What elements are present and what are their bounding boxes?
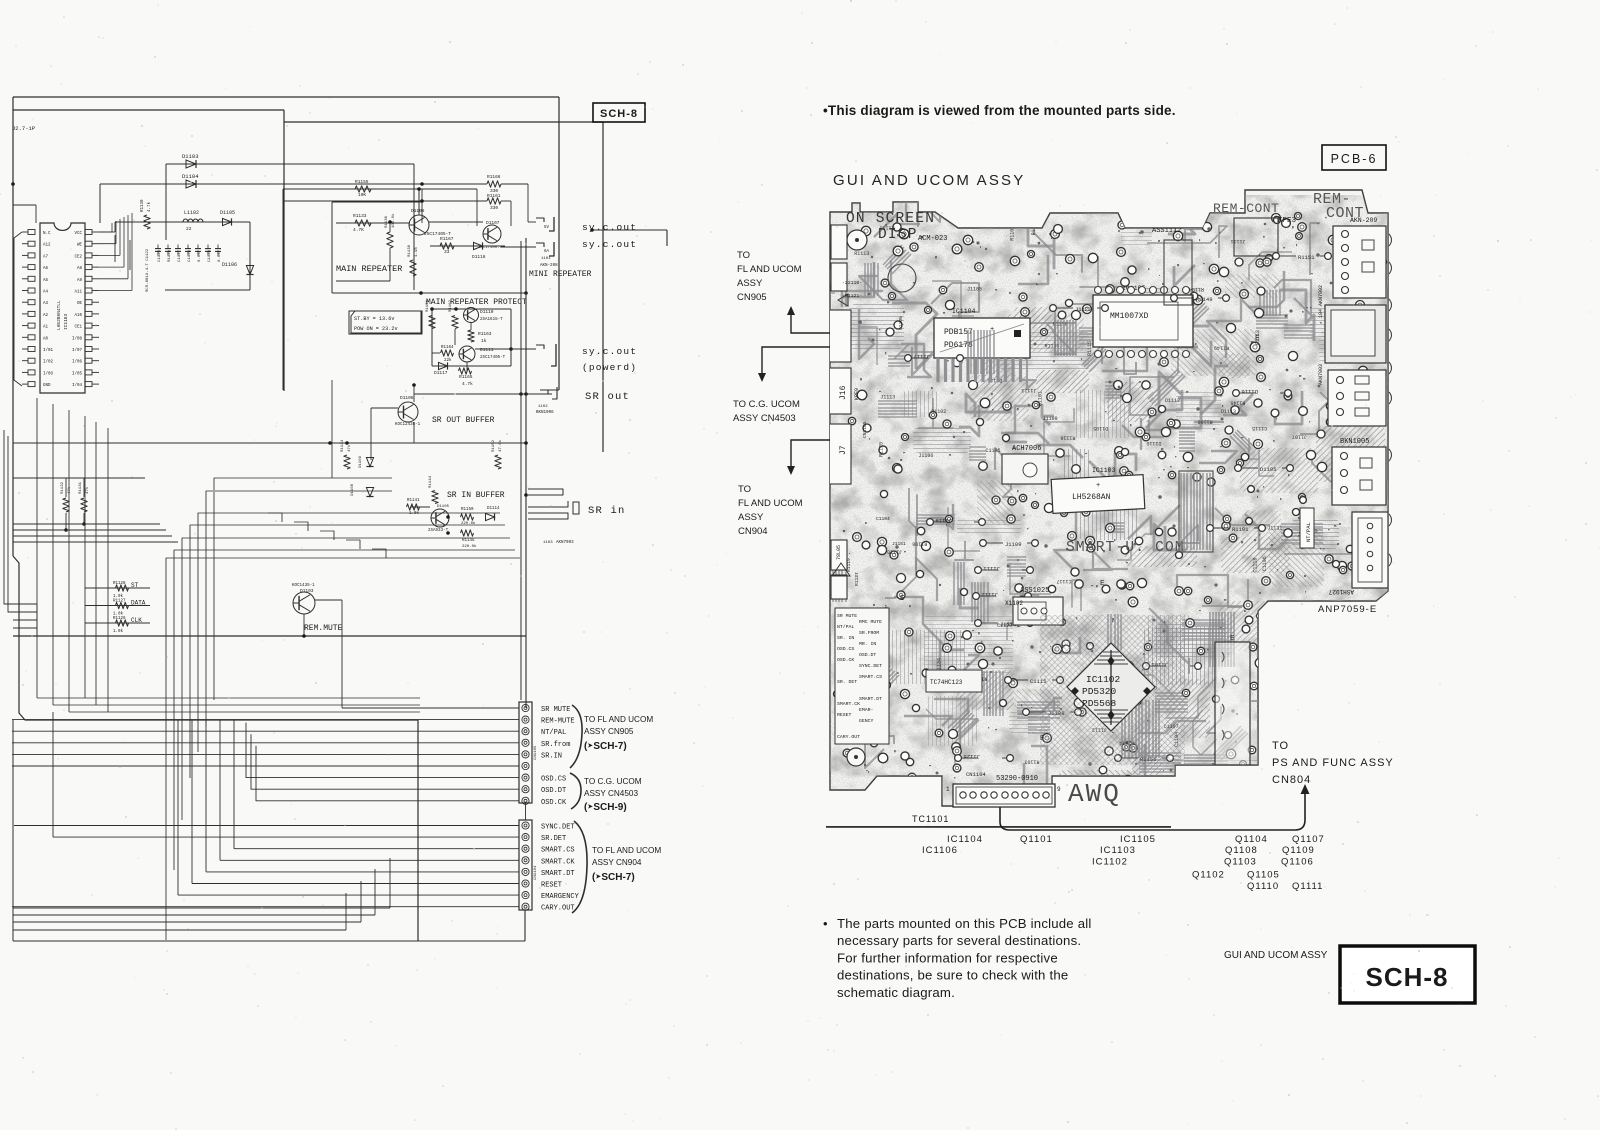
svg-text:Q1109: Q1109: [1282, 845, 1315, 856]
svg-text:KOC1435-1: KOC1435-1: [292, 584, 315, 588]
svg-text:R1133: R1133: [353, 213, 367, 219]
svg-text:OSD.DT: OSD.DT: [541, 787, 566, 795]
svg-text:100.0k: 100.0k: [391, 213, 396, 228]
svg-text:R1126: R1126: [113, 617, 126, 621]
svg-text:R1135: R1135: [1044, 344, 1059, 350]
svg-text:WE: WE: [77, 244, 83, 248]
svg-text:TC74HC123: TC74HC123: [930, 679, 963, 686]
svg-text:REM-CONT: REM-CONT: [1213, 201, 1279, 216]
svg-text:IC1103: IC1103: [1100, 845, 1136, 856]
svg-text:CN905: CN905: [737, 292, 767, 303]
svg-text:1.0k: 1.0k: [113, 594, 124, 599]
svg-text:ASSY: ASSY: [737, 278, 763, 289]
svg-text:2SA1615-T: 2SA1615-T: [480, 318, 503, 322]
svg-text:J1105: J1105: [967, 287, 982, 293]
svg-text:1.1B: 1.1B: [415, 247, 419, 257]
svg-text:TO FL AND UCOM: TO FL AND UCOM: [584, 715, 653, 724]
svg-text:R1104: R1104: [1189, 286, 1204, 292]
svg-text:GUI AND UCOM ASSY: GUI AND UCOM ASSY: [1224, 950, 1328, 961]
svg-text:J1106: J1106: [918, 453, 933, 459]
svg-text:RESET: RESET: [837, 712, 852, 718]
svg-text:R1166: R1166: [487, 174, 501, 180]
svg-text:D1108: D1108: [351, 483, 355, 496]
svg-text:KPE3: KPE3: [1278, 217, 1297, 225]
svg-text:Q1104: Q1104: [1235, 834, 1268, 845]
svg-text:D1103: D1103: [182, 153, 199, 160]
svg-text:C1104: C1104: [876, 516, 890, 522]
svg-text:SMART.CS: SMART.CS: [541, 847, 575, 855]
svg-text:D1111: D1111: [480, 347, 494, 353]
svg-text:OSD.DT: OSD.DT: [859, 652, 876, 658]
svg-text:CN804: CN804: [1272, 774, 1311, 786]
svg-text:J1117: J1117: [913, 353, 930, 360]
svg-text:R1161: R1161: [426, 299, 430, 312]
svg-text:sy.c.out: sy.c.out: [582, 239, 637, 250]
svg-text:SCH-8: SCH-8: [1365, 962, 1448, 992]
svg-text:SR.DET: SR.DET: [541, 835, 566, 843]
svg-text:TO C.G. UCOM: TO C.G. UCOM: [584, 777, 642, 786]
svg-text:A4: A4: [43, 291, 49, 295]
svg-text:CN1104: CN1104: [534, 865, 538, 880]
svg-text:TO: TO: [737, 250, 750, 261]
svg-text:E: E: [1255, 335, 1260, 343]
svg-text:R1150: R1150: [1198, 418, 1213, 424]
svg-text:R1116: R1116: [1060, 435, 1075, 441]
svg-text:78L05: 78L05: [836, 545, 842, 560]
svg-text:IC1103: IC1103: [63, 313, 69, 330]
svg-text:E: E: [900, 595, 905, 603]
svg-text:A7: A7: [43, 255, 49, 259]
svg-text:R1130: R1130: [141, 199, 145, 212]
svg-text:ASSY CN4503: ASSY CN4503: [584, 789, 638, 798]
svg-text:MINI REPEATER: MINI REPEATER: [529, 270, 592, 279]
svg-text:D1109: D1109: [359, 455, 363, 468]
svg-text:47k: 47k: [347, 444, 352, 452]
svg-text:ON SCREEN: ON SCREEN: [846, 211, 935, 227]
svg-text:J1107: J1107: [1292, 434, 1307, 440]
svg-text:R1134: R1134: [341, 439, 345, 452]
svg-text:R1149: R1149: [1214, 344, 1229, 350]
svg-text:CARY.OUT: CARY.OUT: [541, 905, 575, 913]
svg-text:ASSY CN904: ASSY CN904: [592, 858, 642, 867]
svg-text:POW ON = 23.2v: POW ON = 23.2v: [354, 326, 398, 332]
svg-text:J1119: J1119: [935, 517, 952, 524]
svg-text:I/08: I/08: [72, 336, 83, 341]
svg-text:Q1103: Q1103: [1224, 857, 1257, 868]
svg-text:CARY.OUT: CARY.OUT: [837, 734, 860, 740]
svg-text:R1163: R1163: [478, 331, 492, 337]
svg-text:Q1108: Q1108: [1225, 845, 1258, 856]
svg-text:5V: 5V: [544, 226, 550, 230]
svg-text:J1110: J1110: [887, 548, 902, 554]
svg-text:R1108: R1108: [912, 541, 927, 547]
svg-text:ASS1112: ASS1112: [1152, 227, 1181, 235]
svg-text:C1128: C1128: [208, 249, 212, 262]
svg-text:C1129: C1129: [158, 249, 162, 262]
svg-text:1102: 1102: [538, 405, 548, 409]
svg-text:D1116: D1116: [1241, 388, 1258, 395]
svg-text:RCR-8813-4-T C1122: RCR-8813-4-T C1122: [146, 248, 150, 292]
svg-text:J1109: J1109: [1005, 541, 1022, 548]
svg-text:CN1104: CN1104: [966, 771, 987, 778]
svg-text:6A: 6A: [544, 250, 550, 254]
svg-text:J1131: J1131: [1267, 525, 1282, 531]
svg-text:R1145: R1145: [1230, 400, 1245, 406]
svg-text:D1103: D1103: [300, 588, 314, 594]
svg-text:OE: OE: [77, 302, 83, 306]
svg-text:R1145: R1145: [462, 539, 475, 543]
svg-text:AKN7003: AKN7003: [1318, 364, 1324, 385]
svg-text:47k: 47k: [85, 486, 90, 494]
svg-text:1101: 1101: [541, 257, 551, 261]
svg-text:R1150: R1150: [461, 508, 474, 512]
svg-text:AKN7003: AKN7003: [556, 541, 574, 545]
svg-text:OSD.CS: OSD.CS: [837, 646, 854, 652]
svg-text:IC1102: IC1102: [1086, 674, 1121, 685]
svg-text:CN904: CN904: [738, 526, 768, 537]
svg-text:D1105: D1105: [220, 210, 235, 216]
svg-text:R1115: R1115: [1087, 341, 1093, 356]
svg-text:N.C: N.C: [43, 232, 51, 236]
svg-text:R1127: R1127: [113, 600, 126, 604]
svg-text:I/06: I/06: [72, 360, 83, 365]
svg-text:DATA: DATA: [131, 600, 146, 607]
svg-text:SCH-8: SCH-8: [600, 108, 638, 120]
svg-text:MM1007XD: MM1007XD: [1110, 312, 1149, 321]
svg-text:C1126: C1126: [188, 249, 192, 262]
svg-text:I/01: I/01: [43, 348, 54, 353]
svg-text:4.7k: 4.7k: [462, 381, 473, 387]
svg-text:SR in: SR in: [588, 505, 626, 517]
svg-text:SYNC.DET: SYNC.DET: [859, 663, 882, 669]
svg-text:SR.from: SR.from: [541, 741, 570, 749]
svg-text:R1149: R1149: [1196, 296, 1213, 303]
svg-text:1.0k: 1.0k: [409, 511, 420, 516]
svg-text:D1108: D1108: [411, 208, 425, 214]
svg-text:D1101: D1101: [1037, 391, 1043, 406]
svg-text:MR. IN: MR. IN: [859, 641, 876, 647]
svg-text:necessary parts for several de: necessary parts for several destinations…: [837, 933, 1081, 948]
svg-text:R1155: R1155: [355, 179, 369, 185]
svg-text:IC1104: IC1104: [952, 308, 976, 315]
svg-text:sy.c.out: sy.c.out: [582, 222, 637, 233]
svg-text:GENCY: GENCY: [859, 718, 874, 724]
svg-text:PS AND FUNC ASSY: PS AND FUNC ASSY: [1272, 757, 1394, 769]
svg-text:IC1102: IC1102: [1092, 857, 1128, 868]
svg-text:C1105: C1105: [985, 448, 1000, 454]
svg-text:Q1102: Q1102: [1192, 870, 1225, 881]
svg-text:(powerd): (powerd): [582, 362, 637, 373]
svg-text:C1127: C1127: [178, 249, 182, 262]
svg-text:C1117: C1117: [1057, 578, 1072, 584]
svg-text:TC1101: TC1101: [912, 814, 949, 824]
svg-text:SR.FROM: SR.FROM: [859, 630, 879, 636]
svg-text:33: 33: [444, 249, 450, 255]
svg-text:1.0k: 1.0k: [113, 629, 124, 634]
svg-text:X1102: X1102: [1005, 600, 1023, 607]
svg-text:R1131: R1131: [79, 481, 83, 494]
svg-text:J1122: J1122: [1075, 306, 1092, 313]
svg-text:I/04: I/04: [72, 383, 83, 388]
svg-text:ACH7006: ACH7006: [1012, 445, 1041, 453]
svg-text:A2: A2: [43, 314, 49, 318]
svg-text:LH52B6N4TLL: LH52B6N4TLL: [56, 300, 62, 330]
svg-text:SR out: SR out: [585, 391, 630, 403]
svg-text:53290-0910: 53290-0910: [996, 775, 1038, 783]
svg-text:CN1105: CN1105: [534, 745, 538, 760]
svg-text:D1118: D1118: [472, 254, 486, 260]
svg-text:(➤SCH-7): (➤SCH-7): [592, 872, 635, 883]
svg-text:ST.BY = 13.6v: ST.BY = 13.6v: [354, 316, 394, 322]
svg-text:D1112: D1112: [1165, 398, 1180, 404]
svg-text:OSD.CK: OSD.CK: [837, 657, 854, 663]
svg-text:47k: 47k: [67, 486, 72, 494]
svg-text:C1118: C1118: [1253, 558, 1259, 573]
svg-text:J16: J16: [839, 385, 848, 400]
svg-text:TO FL AND UCOM: TO FL AND UCOM: [592, 846, 661, 855]
svg-text:R1138: R1138: [408, 244, 412, 257]
svg-text:4.7k: 4.7k: [147, 201, 152, 212]
svg-text:A10: A10: [74, 314, 82, 318]
svg-text:L1102: L1102: [184, 210, 199, 216]
svg-text:A0: A0: [43, 337, 49, 341]
svg-text:schematic diagram.: schematic diagram.: [837, 985, 955, 1000]
svg-text:AWQ: AWQ: [1068, 779, 1121, 809]
svg-text:sy.c.out: sy.c.out: [582, 346, 637, 357]
svg-text:C1105: C1105: [898, 316, 904, 330]
svg-text:ASH1027: ASH1027: [1328, 588, 1354, 595]
svg-text:220.0k: 220.0k: [462, 544, 477, 549]
svg-text:ST: ST: [131, 582, 139, 589]
svg-text:J1126: J1126: [963, 753, 980, 760]
svg-text:A8: A8: [77, 267, 83, 271]
svg-text:Q1107: Q1107: [1292, 834, 1325, 845]
svg-text:ASSY: ASSY: [738, 512, 764, 523]
svg-text:R1164: R1164: [441, 346, 454, 350]
svg-text:ASSY CN4503: ASSY CN4503: [733, 413, 796, 424]
svg-text:R1144: R1144: [429, 475, 433, 488]
svg-text:SYNC.DET: SYNC.DET: [541, 824, 575, 832]
svg-text:9: 9: [1057, 786, 1061, 793]
svg-text:0.047: 0.047: [218, 249, 222, 262]
svg-text:CN1105: CN1105: [862, 421, 868, 438]
svg-text:•: •: [823, 916, 828, 931]
svg-text:SMART.CS: SMART.CS: [859, 674, 882, 680]
svg-text:1103: 1103: [543, 541, 553, 545]
svg-text:FL AND UCOM: FL AND UCOM: [738, 498, 803, 509]
svg-text:J1113: J1113: [880, 395, 895, 401]
svg-text:R1127: R1127: [854, 572, 860, 586]
svg-text:R1102: R1102: [931, 409, 946, 415]
svg-text:GUI AND UCOM ASSY: GUI AND UCOM ASSY: [833, 172, 1025, 189]
svg-text:R1129: R1129: [168, 249, 172, 262]
svg-text:CONT: CONT: [1326, 205, 1364, 222]
svg-text:TO: TO: [738, 484, 751, 495]
svg-text:47.0k: 47.0k: [498, 439, 503, 452]
svg-text:REM-MUTE: REM-MUTE: [541, 718, 575, 726]
svg-text:E: E: [1100, 580, 1105, 588]
svg-text:Q1101: Q1101: [1020, 834, 1053, 845]
svg-text:IC1104: IC1104: [947, 834, 983, 845]
svg-text:R1119: R1119: [846, 558, 852, 572]
svg-text:IC1105: IC1105: [1120, 834, 1156, 845]
svg-text:A9: A9: [77, 279, 83, 283]
svg-text:FL AND UCOM: FL AND UCOM: [737, 264, 802, 275]
svg-text:VCC: VCC: [74, 232, 82, 236]
svg-text:330: 330: [490, 205, 498, 211]
svg-text:The parts mounted on this PCB: The parts mounted on this PCB include al…: [837, 916, 1092, 931]
svg-text:J1123: J1123: [1021, 387, 1036, 393]
svg-text:SR.IN: SR.IN: [541, 752, 562, 760]
svg-text:SMART.CK: SMART.CK: [837, 701, 860, 707]
svg-text:R1161: R1161: [487, 193, 501, 199]
svg-text:R1151: R1151: [1298, 254, 1315, 261]
svg-text:EMAR-: EMAR-: [859, 707, 874, 713]
svg-text:A1: A1: [43, 326, 49, 330]
svg-text:EMARGENCY: EMARGENCY: [541, 893, 580, 901]
svg-text:SR IN BUFFER: SR IN BUFFER: [447, 491, 505, 500]
svg-text:MAIN REPEATER PROTECT: MAIN REPEATER PROTECT: [426, 298, 527, 307]
svg-text:A5: A5: [43, 279, 49, 283]
svg-text:R1141: R1141: [407, 499, 420, 503]
svg-text:R1125: R1125: [878, 442, 884, 457]
svg-text:MAIN REPEATER: MAIN REPEATER: [336, 264, 402, 274]
svg-text:ASS1025: ASS1025: [1020, 587, 1049, 595]
svg-text:AKN-208: AKN-208: [540, 264, 558, 268]
svg-text:REM.MUTE: REM.MUTE: [304, 624, 343, 633]
svg-text:D1104: D1104: [182, 173, 199, 180]
svg-text:22: 22: [186, 226, 192, 232]
svg-text:0.047: 0.047: [198, 249, 202, 262]
svg-text:SR OUT BUFFER: SR OUT BUFFER: [432, 416, 495, 425]
svg-text:A6: A6: [43, 267, 49, 271]
svg-text:RMC MUTE: RMC MUTE: [859, 619, 882, 625]
svg-text:SR. DET: SR. DET: [837, 679, 857, 685]
svg-text:ANP7059-E: ANP7059-E: [1318, 604, 1377, 615]
svg-text:J1151: J1151: [892, 541, 906, 547]
svg-text:A11: A11: [74, 291, 82, 295]
svg-text:KPE9: KPE9: [854, 388, 860, 400]
svg-text:104 AKN7002: 104 AKN7002: [1318, 285, 1324, 318]
svg-text:A12: A12: [43, 244, 51, 248]
svg-text:CE1: CE1: [74, 326, 82, 330]
svg-text:2SC17405-T: 2SC17405-T: [480, 356, 506, 360]
svg-text:LH5268AN: LH5268AN: [1072, 493, 1111, 502]
svg-text:J2.7-1P: J2.7-1P: [12, 125, 35, 132]
svg-text:I/03: I/03: [43, 371, 54, 376]
svg-text:2SA933-T: 2SA933-T: [428, 529, 449, 533]
svg-text:SR MUTE: SR MUTE: [541, 706, 570, 714]
svg-text:4.7K: 4.7K: [353, 227, 364, 233]
svg-text:SR MUTE: SR MUTE: [837, 613, 857, 619]
svg-text:1: 1: [946, 786, 950, 793]
svg-text:22k: 22k: [444, 358, 452, 363]
svg-text:•This diagram is viewed from t: •This diagram is viewed from the mounted…: [823, 103, 1176, 118]
svg-text:Q1110: Q1110: [1247, 881, 1279, 892]
svg-text:D1110: D1110: [1146, 440, 1161, 446]
svg-text:SR. IN: SR. IN: [837, 635, 854, 641]
svg-text:D1114: D1114: [487, 507, 500, 511]
svg-text:R1101: R1101: [1232, 526, 1249, 533]
svg-text:J1111: J1111: [983, 565, 1000, 572]
svg-text:CLK: CLK: [131, 617, 142, 624]
svg-text:10K: 10K: [358, 192, 366, 198]
svg-text:(➤SCH-9): (➤SCH-9): [584, 802, 627, 813]
svg-text:A3: A3: [43, 302, 49, 306]
svg-text:SMART.DT: SMART.DT: [541, 870, 575, 878]
svg-text:D1117: D1117: [434, 370, 448, 376]
svg-text:TO: TO: [1272, 740, 1289, 752]
svg-text:J1111: J1111: [1231, 238, 1246, 244]
svg-text:BKN1006: BKN1006: [536, 411, 554, 415]
svg-text:R1167: R1167: [440, 236, 454, 242]
svg-text:+: +: [1096, 482, 1100, 490]
svg-text:Q1111: Q1111: [1292, 881, 1323, 892]
svg-text:ASSY CN905: ASSY CN905: [584, 727, 634, 736]
svg-text:D1105: D1105: [1260, 466, 1277, 473]
svg-text:DISP.: DISP.: [878, 227, 928, 243]
svg-text:1.0k: 1.0k: [113, 612, 124, 617]
svg-text:(➤SCH-7): (➤SCH-7): [584, 741, 627, 752]
svg-text:D1106: D1106: [400, 395, 414, 401]
svg-text:D1113: D1113: [1221, 409, 1236, 415]
svg-text:NT/PAL: NT/PAL: [837, 624, 854, 630]
svg-text:For further information for re: For further information for respective: [837, 950, 1058, 965]
svg-text:1k: 1k: [481, 338, 487, 344]
svg-text:J1109: J1109: [1043, 416, 1058, 422]
svg-text:RESET: RESET: [541, 882, 562, 890]
svg-text:IC1103: IC1103: [1092, 467, 1116, 474]
svg-text:-22110-: -22110-: [842, 280, 862, 286]
svg-text:Q1105: Q1105: [1247, 870, 1280, 881]
svg-text:PCB-6: PCB-6: [1331, 152, 1378, 166]
svg-text:BKN1005: BKN1005: [1340, 438, 1369, 446]
svg-text:R1132: R1132: [61, 481, 65, 494]
svg-text:R1165: R1165: [459, 374, 473, 380]
svg-text:D1107: D1107: [486, 220, 500, 226]
svg-text:NT/PAL: NT/PAL: [541, 729, 566, 737]
svg-text:R1113: R1113: [854, 251, 869, 257]
svg-text:D1106: D1106: [222, 262, 237, 268]
svg-text:R1162: R1162: [449, 299, 453, 312]
svg-text:destinations, be sure to check: destinations, be sure to check with the: [837, 968, 1068, 983]
svg-text:NT/PAL: NT/PAL: [1305, 522, 1312, 542]
svg-text:GND: GND: [43, 384, 51, 388]
svg-text:OSD.CS: OSD.CS: [541, 776, 566, 784]
svg-text:D1110: D1110: [480, 309, 494, 315]
svg-text:I/05: I/05: [72, 371, 83, 376]
svg-text:CE2: CE2: [74, 255, 82, 259]
svg-text:D1105: D1105: [437, 505, 450, 509]
svg-text:D1105: D1105: [1093, 425, 1108, 431]
svg-text:Q1106: Q1106: [1281, 857, 1314, 868]
svg-text:J7: J7: [839, 445, 848, 455]
svg-text:IC1106: IC1106: [922, 845, 958, 856]
svg-text:C1106: C1106: [1262, 556, 1268, 571]
svg-text:I/02: I/02: [43, 360, 54, 365]
svg-text:TO C.G. UCOM: TO C.G. UCOM: [733, 399, 800, 410]
svg-text:SMART.CK: SMART.CK: [541, 858, 575, 866]
svg-text:SMART.DT: SMART.DT: [859, 696, 882, 702]
svg-text:J1112: J1112: [981, 591, 998, 598]
svg-text:R1152: R1152: [492, 439, 496, 452]
svg-text:R1128: R1128: [113, 582, 126, 586]
svg-text:KOC12435-1: KOC12435-1: [395, 423, 421, 427]
svg-text:SMART-U. COM: SMART-U. COM: [1066, 540, 1185, 556]
svg-text:C1115: C1115: [1252, 425, 1267, 431]
svg-text:OSD.CK: OSD.CK: [541, 799, 567, 807]
svg-text:I/07: I/07: [72, 348, 83, 353]
